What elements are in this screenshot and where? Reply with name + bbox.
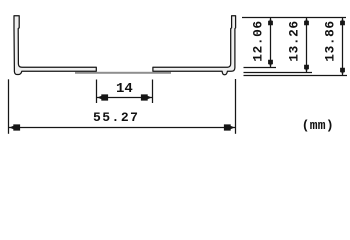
- dimension 13.26: top arrowhead: [304, 18, 309, 25]
- channel profile left half: [14, 16, 96, 75]
- dimension 14: right arrowhead: [141, 94, 152, 100]
- dimension 13.26: dimension line: [306, 18, 308, 73]
- dimension 13.86: dimension line: [342, 18, 344, 76]
- dimension 13.26: bottom arrowhead: [304, 65, 309, 72]
- svg-text:13.26: 13.26: [287, 20, 302, 61]
- gray seating line under flange gap: [75, 72, 171, 74]
- svg-text:14: 14: [116, 81, 133, 97]
- dimension 55.27: left extension line: [8, 79, 10, 134]
- dimension 12.06: dimension line: [270, 18, 272, 68]
- dimension 12.06: bottom arrowhead: [268, 60, 273, 67]
- dimension 14: right extension line: [152, 80, 154, 104]
- dimension 14: dimension line: [97, 97, 153, 99]
- dimension 12.06: bottom extension line: [244, 67, 277, 69]
- svg-text:(mm): (mm): [302, 118, 334, 133]
- dimension 55.27: left arrowhead: [9, 124, 20, 130]
- dimension 13.86: bottom extension line: [244, 75, 348, 77]
- dimension 12.06: top arrowhead: [268, 18, 273, 25]
- dimension 55.27: dimension line: [9, 127, 236, 129]
- svg-text:13.86: 13.86: [323, 20, 338, 61]
- dimension 55.27: right arrowhead: [224, 124, 235, 130]
- dimension 13.86: bottom arrowhead: [340, 68, 345, 75]
- dimension 55.27: right extension line: [235, 79, 237, 134]
- dimension 14: left arrowhead: [97, 94, 108, 100]
- channel profile right half: [153, 16, 236, 75]
- dimension 14: left extension line: [96, 80, 98, 104]
- svg-text:12.06: 12.06: [251, 20, 266, 61]
- dimension 13.86: top arrowhead: [340, 18, 345, 25]
- vertical dims: common top extension line: [242, 17, 346, 19]
- svg-text:55.27: 55.27: [93, 110, 140, 125]
- dimension 13.26: bottom extension line: [244, 72, 313, 74]
